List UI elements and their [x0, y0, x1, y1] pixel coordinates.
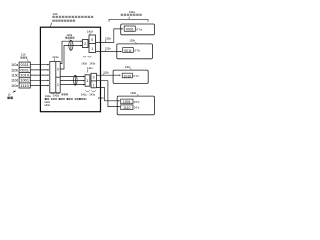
- svg-text:0: 0: [91, 38, 93, 42]
- key table 110a-110e: [19, 62, 30, 88]
- svg-text:143a: 143a: [53, 94, 59, 98]
- 130c key rect: [122, 73, 132, 78]
- svg-text:1: 1: [86, 79, 88, 83]
- svg-text:07a: 07a: [136, 28, 142, 32]
- title line 2 (kanji mush): [52, 20, 75, 22]
- arc leaders under 141c group: [85, 90, 96, 93]
- wire 141b to 130b: [96, 51, 122, 53]
- leader 150c: [103, 74, 104, 75]
- wire 141b to 130a: [96, 29, 123, 43]
- svg-text:2: 2: [84, 42, 86, 46]
- leader 130a to brace: [128, 17, 131, 19]
- selector ellipse upper: [69, 40, 73, 50]
- svg-text:110b: 110b: [11, 68, 18, 72]
- result box 130c: [113, 70, 148, 83]
- svg-text:07b: 07b: [134, 49, 140, 53]
- svg-text:1110: 1110: [123, 106, 130, 110]
- row labels 110a..110e: [11, 63, 18, 88]
- svg-text:141b: 141b: [87, 30, 94, 34]
- wires 141a to 141c: [60, 77, 84, 85]
- svg-text:110c: 110c: [11, 74, 18, 78]
- leader 110 to key table: [27, 59, 29, 61]
- heading name (mush): [121, 14, 142, 16]
- node box 141c right: [91, 73, 96, 88]
- svg-text:07c: 07c: [133, 74, 139, 78]
- arc leaders under 141b group: [83, 55, 92, 58]
- key values: [20, 62, 29, 88]
- svg-text:0: 0: [93, 76, 95, 80]
- svg-text:1010: 1010: [123, 74, 131, 78]
- input arrows from keys to 141a: [30, 65, 49, 86]
- svg-text:1: 1: [91, 47, 93, 51]
- leader 151b: [104, 50, 107, 51]
- 130a key rect: [124, 26, 135, 31]
- svg-text:110d: 110d: [11, 79, 18, 83]
- wire 141c to 130d lower: [96, 81, 119, 107]
- 130b key rect: [123, 48, 134, 53]
- svg-text:07e: 07e: [134, 106, 140, 110]
- figure pointer arrow: [13, 91, 16, 92]
- svg-text:1: 1: [93, 83, 95, 87]
- svg-text:130d: 130d: [130, 91, 136, 95]
- legend line (mush + refs): [45, 98, 87, 100]
- svg-text:141a: 141a: [52, 55, 59, 59]
- svg-text:1110: 1110: [21, 83, 30, 88]
- svg-text:142b: 142b: [81, 61, 87, 65]
- label 10 name (mush): [7, 97, 12, 100]
- wire 141a to 141b upper: [60, 41, 82, 63]
- result box 130d: [117, 96, 154, 115]
- label 120a name (mush): [65, 37, 74, 39]
- svg-text:1: 1: [57, 83, 59, 87]
- wire 141a to 141b lower: [60, 46, 82, 70]
- svg-text:143b: 143b: [89, 61, 95, 65]
- result box 130b: [117, 44, 153, 59]
- svg-text:143c: 143c: [89, 93, 95, 97]
- svg-text:0: 0: [57, 67, 59, 71]
- svg-text:1001: 1001: [123, 100, 131, 104]
- leader 120a to ellipse: [69, 39, 72, 40]
- svg-text:0011: 0011: [124, 49, 132, 53]
- leader 130d: [137, 94, 139, 96]
- 130d key rect lower: [121, 105, 133, 110]
- wire 141c to 130d upper: [96, 88, 119, 101]
- svg-text:142a: 142a: [45, 94, 51, 98]
- 130d key rect upper: [121, 99, 133, 104]
- leader 141c: [87, 69, 88, 72]
- leader 141a: [53, 58, 56, 61]
- svg-text:0001: 0001: [126, 28, 134, 32]
- svg-text:07d: 07d: [134, 100, 140, 104]
- node box 141a: [50, 62, 60, 93]
- branch box 1 (141c left): [85, 75, 90, 86]
- main unit box 140: [40, 27, 100, 112]
- arc leaders under 141a: [50, 92, 60, 95]
- svg-text:10: 10: [8, 92, 11, 96]
- leader 130b: [135, 42, 137, 44]
- svg-text:110a: 110a: [11, 63, 18, 67]
- branch box 2 (141b left): [83, 40, 89, 48]
- result box 130a: [121, 24, 155, 35]
- caption small mush mid: [62, 93, 68, 95]
- label 110 name (mush): [20, 57, 27, 59]
- svg-text:110e: 110e: [11, 84, 18, 88]
- svg-text:140: 140: [52, 12, 57, 16]
- svg-text:130b: 130b: [129, 39, 135, 43]
- svg-text:143e: 143e: [44, 103, 50, 107]
- selector ellipse lower: [74, 75, 78, 85]
- leader 141b: [89, 33, 92, 35]
- leader from 140 title to main box: [50, 23, 52, 27]
- svg-text:110: 110: [21, 53, 26, 57]
- leader 150b: [104, 40, 107, 42]
- svg-text:150d: 150d: [98, 96, 104, 100]
- svg-text:142c: 142c: [81, 93, 87, 97]
- node box 141b right: [89, 35, 96, 53]
- svg-text:130a: 130a: [129, 10, 135, 14]
- leader 130c: [130, 68, 132, 70]
- title line 1 (kanji mush): [52, 16, 93, 18]
- wire 141c to 130c: [96, 74, 120, 76]
- brace over result column: [109, 19, 148, 21]
